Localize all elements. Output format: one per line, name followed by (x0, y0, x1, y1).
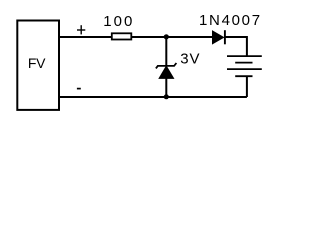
wire: node A to diode D1 anode (166, 36, 213, 38)
diode D1 1N4007 (213, 30, 225, 44)
wire: resistor to node A (131, 36, 166, 38)
plus polarity mark (77, 25, 85, 34)
node B (junction dot, bottom) (164, 94, 169, 99)
node A (junction dot, top) (164, 34, 169, 39)
zener diode 3V (156, 37, 177, 97)
wire: zener anode down to node B (165, 77, 167, 97)
minus polarity mark (77, 88, 81, 90)
svg-text:1N4007: 1N4007 (199, 12, 262, 29)
photovoltaic source FV (box) (17, 21, 59, 110)
battery (2-cell) (227, 56, 262, 76)
zener cathode bar with bent ends (156, 63, 177, 68)
wire: battery negative down to bottom rail (246, 76, 248, 97)
resistor 100 (body) (112, 33, 132, 39)
wire: node A down to zener cathode (165, 37, 167, 66)
zener triangle (anode) (159, 66, 174, 78)
wire: D1 cathode to battery positive (225, 37, 247, 56)
wire: FV positive terminal to resistor (59, 36, 112, 38)
svg-text:100: 100 (103, 13, 134, 30)
svg-text:3V: 3V (180, 50, 200, 67)
svg-text:FV: FV (28, 55, 46, 71)
bottom wire: FV negative terminal to battery branch (59, 96, 247, 98)
